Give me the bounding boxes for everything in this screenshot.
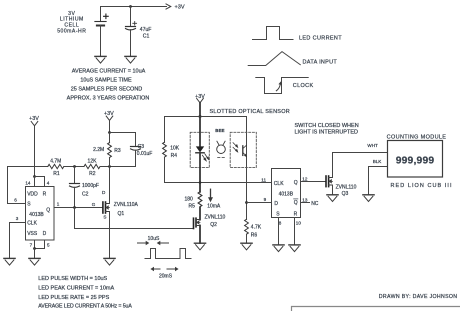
svg-text:8: 8 <box>279 220 282 225</box>
power +3V LED supply <box>195 94 205 117</box>
wire R3C3 top edge <box>110 132 136 134</box>
svg-text:D: D <box>43 231 47 237</box>
wire R2 to C3 corner <box>100 166 136 168</box>
note text block LED pulse <box>38 276 132 309</box>
node LED supply junction <box>199 115 202 118</box>
resistor R2 12K <box>84 164 100 168</box>
wire IC1 pins 14/4 top bar <box>35 177 45 187</box>
ground Q3 source <box>327 195 338 202</box>
ground pin 10 <box>289 245 300 252</box>
transistor Q1 ZVNL110A <box>103 167 110 259</box>
svg-text:R: R <box>294 211 298 217</box>
wire pin 8 to ground <box>278 218 280 245</box>
svg-text:47uF: 47uF <box>140 27 152 33</box>
title block box corner <box>292 307 460 311</box>
dashed box sensor side <box>230 132 256 167</box>
svg-text:AVERAGE CURRENT = 10uA: AVERAGE CURRENT = 10uA <box>72 68 146 74</box>
svg-text:CLOCK: CLOCK <box>293 83 314 89</box>
waveform LED current pulse <box>253 27 294 40</box>
wire R1 to R2 <box>64 166 84 168</box>
svg-text:R3: R3 <box>114 148 121 154</box>
svg-text:R1: R1 <box>53 171 60 177</box>
svg-text:G: G <box>92 202 96 207</box>
svg-text:BLK: BLK <box>373 159 383 164</box>
svg-text:S: S <box>27 202 31 208</box>
svg-text:9: 9 <box>264 197 267 202</box>
svg-text:ZVNL110A: ZVNL110A <box>114 202 139 208</box>
dashed box LED side <box>190 132 209 167</box>
svg-text:Q3: Q3 <box>342 191 349 197</box>
resistor R1 4.7M <box>48 164 64 168</box>
svg-text:12: 12 <box>302 176 308 181</box>
svg-text:SLOTTED OPTICAL SENSOR: SLOTTED OPTICAL SENSOR <box>210 109 290 115</box>
op IC U1 4013B box <box>26 187 55 241</box>
op IC U2 4013B box <box>272 169 301 218</box>
ground Q2 source <box>194 243 205 250</box>
svg-text:RED LION CUB III: RED LION CUB III <box>391 183 453 189</box>
svg-text:S: S <box>103 214 106 219</box>
transistor Q2 ZVNL110 <box>194 218 201 243</box>
svg-text:R: R <box>43 191 47 197</box>
waveform clock pulse <box>256 78 308 94</box>
wire sensor top edge <box>165 116 247 118</box>
ground pins 7/5 <box>29 258 40 265</box>
wire WHT to module <box>333 152 388 154</box>
wire sensor left edge lower <box>164 157 166 182</box>
svg-text:1: 1 <box>57 202 60 207</box>
wire pin 1 Q to Q1 gate <box>54 207 103 209</box>
counter module box <box>388 141 443 178</box>
+3V arrow head <box>166 4 171 9</box>
svg-text:C3: C3 <box>138 144 145 150</box>
wire IC1 pins 7/5 bottom bar <box>35 240 45 249</box>
svg-text:LED PEAK CURRENT = 10mA: LED PEAK CURRENT = 10mA <box>38 286 114 292</box>
wire +3V rail top <box>101 6 167 8</box>
svg-text:0.01uF: 0.01uF <box>137 151 153 157</box>
svg-text:DRAWN BY: DAVE JOHNSON: DRAWN BY: DAVE JOHNSON <box>379 294 458 300</box>
IC2 internal labels <box>274 180 298 217</box>
node R3 bottom tap <box>108 165 111 168</box>
svg-text:LED CURRENT: LED CURRENT <box>299 36 342 42</box>
wire BLK to module <box>369 167 388 195</box>
wire sensor bottom edge to pin 11 <box>165 182 272 184</box>
arrow 10mA current <box>208 189 213 202</box>
svg-text:500mA-HR: 500mA-HR <box>57 28 86 34</box>
arrow right 10uS <box>157 241 169 245</box>
svg-text:Q2: Q2 <box>210 222 217 228</box>
wire to ground pins 7/5 <box>34 249 36 259</box>
clock edge arrow <box>276 81 282 90</box>
svg-text:4.7K: 4.7K <box>251 224 262 230</box>
svg-text:3: 3 <box>16 216 19 221</box>
wire pin 13 NC stub <box>301 202 310 204</box>
svg-text:10: 10 <box>296 220 302 225</box>
arrow right 20mS <box>167 267 179 271</box>
wire pin 12 Q to Q3 gate <box>301 181 327 183</box>
svg-text:D: D <box>102 190 106 195</box>
svg-text:14: 14 <box>25 180 31 185</box>
ground Q1 source <box>104 258 115 265</box>
svg-text:CLK: CLK <box>27 221 37 227</box>
svg-text:Q: Q <box>294 200 298 206</box>
svg-text:1000pF: 1000pF <box>82 183 99 189</box>
wire sensor left edge upper <box>164 117 166 143</box>
wire sensor right edge <box>246 117 248 220</box>
svg-text:S: S <box>276 211 280 217</box>
waveform data input triangle <box>248 52 300 66</box>
node LED line crosses sensor output <box>199 181 202 184</box>
svg-text:10mA: 10mA <box>207 203 221 209</box>
arrow left 10uS <box>138 241 150 245</box>
node VDD junction <box>33 175 36 178</box>
node D input tap <box>245 201 248 204</box>
node R3/C3 top junction <box>108 131 111 134</box>
ground pin 8 <box>273 245 284 252</box>
svg-text:2.2M: 2.2M <box>93 147 104 153</box>
wire R6 to ground <box>246 234 248 243</box>
wire pin 10 to ground <box>294 218 296 245</box>
ground BLK <box>363 195 374 202</box>
svg-text:CLK: CLK <box>274 181 284 187</box>
svg-text:COUNTING MODULE: COUNTING MODULE <box>387 134 447 140</box>
waveform pulse train <box>145 249 191 259</box>
svg-text:LED PULSE WIDTH = 10uS: LED PULSE WIDTH = 10uS <box>38 276 107 282</box>
LED D1 <box>196 117 209 192</box>
resistor R6 4.7K vertical <box>245 219 249 234</box>
ground under C1 <box>125 56 136 63</box>
svg-text:180: 180 <box>184 196 193 202</box>
node: battery top junction to C1 <box>129 5 132 8</box>
IC1 internal labels <box>27 191 50 236</box>
svg-text:5: 5 <box>47 243 50 248</box>
svg-text:12K: 12K <box>88 159 98 165</box>
phototransistor Q4 <box>233 143 247 157</box>
ground under battery <box>95 56 106 63</box>
capacitor C1 47uF <box>126 7 137 57</box>
svg-text:BEE: BEE <box>215 128 224 133</box>
wire pin 6 S input from rail <box>8 167 26 204</box>
node C2 tap <box>73 165 76 168</box>
battery B1 3V lithium cell <box>95 7 108 57</box>
svg-text:WHT: WHT <box>367 143 378 148</box>
svg-text:R6: R6 <box>251 232 258 238</box>
svg-text:Q: Q <box>46 208 50 214</box>
capacitor C3 0.01uF <box>131 133 141 167</box>
svg-text:Q1: Q1 <box>118 211 125 217</box>
svg-text:10uS: 10uS <box>148 236 160 242</box>
svg-text:R2: R2 <box>89 171 96 177</box>
transistor Q3 ZVNL110 <box>326 153 333 195</box>
svg-text:+3V: +3V <box>175 5 185 11</box>
svg-text:Q: Q <box>294 180 298 186</box>
node pins 7/5 junction <box>33 247 36 250</box>
svg-text:ZVNL110: ZVNL110 <box>205 214 226 220</box>
svg-text:7: 7 <box>30 243 33 248</box>
svg-text:LIGHT IS INTERRUPTED: LIGHT IS INTERRUPTED <box>295 130 358 136</box>
power +3V at IC1 <box>29 116 39 176</box>
resistor R3 2.2M vertical <box>108 133 112 167</box>
battery value label <box>57 11 86 34</box>
svg-text:4013B: 4013B <box>29 212 44 218</box>
wire R5 to Q2 drain <box>199 207 201 219</box>
svg-text:4.7M: 4.7M <box>50 159 61 165</box>
svg-text:10uS SAMPLE TIME: 10uS SAMPLE TIME <box>80 77 132 83</box>
svg-text:25 SAMPLES PER SECOND: 25 SAMPLES PER SECOND <box>71 87 143 93</box>
svg-text:C2: C2 <box>82 192 89 198</box>
wire pin 3 CLK to ground <box>10 223 26 259</box>
svg-text:4: 4 <box>47 180 50 185</box>
node C2 bottom tap on gate wire <box>73 206 76 209</box>
svg-text:DATA INPUT: DATA INPUT <box>303 60 338 66</box>
svg-text:NC: NC <box>311 201 319 207</box>
svg-text:ZVNL110: ZVNL110 <box>336 184 357 190</box>
wire to pin 9 D input <box>247 202 272 204</box>
svg-text:VSS: VSS <box>27 231 38 237</box>
svg-text:4013B: 4013B <box>279 192 294 198</box>
bee icon <box>217 141 226 157</box>
wire C2 bottom to Q2 gate <box>75 208 194 229</box>
arrow left 20mS <box>150 267 160 271</box>
ground R6 <box>241 243 252 250</box>
svg-text:C1: C1 <box>143 33 150 39</box>
svg-text:R5: R5 <box>189 203 196 209</box>
svg-text:VDD: VDD <box>27 191 38 197</box>
svg-text:999,999: 999,999 <box>396 156 435 167</box>
power +3V at R3 <box>104 111 114 133</box>
capacitor C2 1000pF <box>70 167 80 208</box>
svg-text:LED PULSE RATE = 25 PPS: LED PULSE RATE = 25 PPS <box>38 295 109 301</box>
svg-text:11: 11 <box>261 177 266 182</box>
svg-text:D: D <box>274 201 278 207</box>
svg-text:R4: R4 <box>171 153 178 159</box>
svg-text:APPROX. 3 YEARS OPERATION: APPROX. 3 YEARS OPERATION <box>67 96 150 102</box>
svg-text:10K: 10K <box>170 145 180 151</box>
wire feedback rail <box>8 166 48 168</box>
svg-text:6: 6 <box>14 197 17 202</box>
resistor R5 180 vertical bold path <box>198 192 202 207</box>
svg-text:AVERAGE LED CURRENT A 50Hz = 5: AVERAGE LED CURRENT A 50Hz = 5uA <box>38 304 132 310</box>
ground pin 3 <box>4 258 15 265</box>
svg-text:20mS: 20mS <box>159 274 173 280</box>
note text block: average current <box>67 68 150 101</box>
svg-text:SWITCH CLOSED WHEN: SWITCH CLOSED WHEN <box>295 123 359 129</box>
svg-text:13: 13 <box>302 198 308 203</box>
resistor R4 10K vertical <box>163 142 167 157</box>
